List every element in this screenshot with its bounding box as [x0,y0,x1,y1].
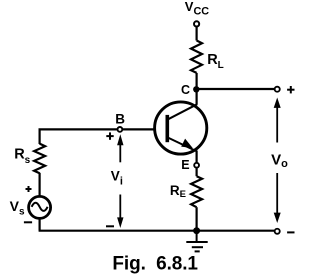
svg-text:B: B [115,111,125,126]
svg-text:C: C [181,83,190,97]
svg-text:E: E [181,158,189,172]
svg-text:Fig. 6.8.1: Fig. 6.8.1 [112,253,198,274]
